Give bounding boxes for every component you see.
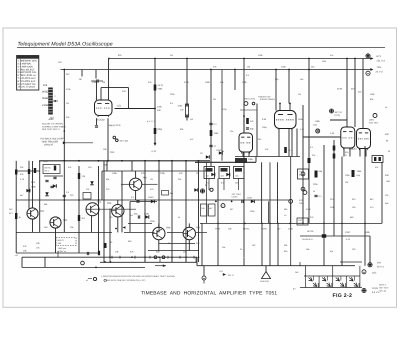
svg-text:(FRONT PANEL): (FRONT PANEL) <box>260 98 275 101</box>
svg-text:210Ω: 210Ω <box>42 104 48 107</box>
svg-text:SEE TEXT SEC 4: SEE TEXT SEC 4 <box>42 128 60 131</box>
svg-text:(15k): (15k) <box>157 128 162 131</box>
svg-text:STAB: STAB <box>261 228 267 231</box>
svg-text:CIRCUIT: CIRCUIT <box>44 144 54 147</box>
svg-text:SLOW: SLOW <box>307 230 314 233</box>
svg-text:CHASSIS: CHASSIS <box>260 280 269 283</box>
svg-text:211 V: 211 V <box>228 274 234 277</box>
svg-text:1M: 1M <box>196 172 199 175</box>
svg-text:(xV): (xV) <box>372 272 376 275</box>
svg-text:1 DENOTES WAFER POSITION VOLT: 1 DENOTES WAFER POSITION VOLTAGE ON FRON… <box>101 275 175 278</box>
svg-text:LEVEL: LEVEL <box>232 196 239 199</box>
svg-text:2M: 2M <box>213 98 216 101</box>
svg-text:+170: +170 <box>151 150 157 153</box>
svg-text:LINE xxx: LINE xxx <box>58 247 66 250</box>
svg-text:10M: 10M <box>322 60 326 63</box>
svg-text:FAST: FAST <box>345 231 351 234</box>
svg-text:1M: 1M <box>66 102 69 105</box>
svg-text:24 V d: 24 V d <box>376 70 384 73</box>
svg-text:MULTI: MULTI <box>58 239 65 242</box>
svg-text:TRIG LEVEL: TRIG LEVEL <box>244 98 256 101</box>
svg-text:10k: 10k <box>201 207 204 210</box>
svg-text:TR6: TR6 <box>166 227 171 230</box>
svg-text:PRE: PRE <box>110 151 115 154</box>
svg-text:16.7k: 16.7k <box>158 84 164 87</box>
svg-text:SET 10p: SET 10p <box>120 140 129 143</box>
svg-text:35 V d: 35 V d <box>377 266 384 269</box>
svg-text:2 AND WITH TIME DIV. SCREEN O: 2 AND WITH TIME DIV. SCREEN ON (+ PC) <box>105 279 146 282</box>
svg-text:10k: 10k <box>43 84 48 87</box>
svg-text:SET 10: SET 10 <box>335 111 343 114</box>
svg-text:TR1: TR1 <box>40 210 45 213</box>
svg-text:(TP2): (TP2) <box>335 114 341 117</box>
svg-text:10n: 10n <box>206 175 209 178</box>
svg-text:TRIG: TRIG <box>299 202 304 205</box>
svg-text:+12: +12 <box>15 254 18 257</box>
svg-text:1M: 1M <box>79 78 82 81</box>
svg-text:1W: 1W <box>190 118 193 121</box>
svg-text:2 X AMP BAL: 2 X AMP BAL <box>18 63 33 66</box>
svg-text:CORRECT SWP TIMES: CORRECT SWP TIMES <box>42 125 66 128</box>
svg-text:NOTE 2: NOTE 2 <box>379 284 387 287</box>
svg-text:TR2: TR2 <box>63 219 68 222</box>
svg-text:ADJUST TO OBTAIN: ADJUST TO OBTAIN <box>42 123 63 126</box>
svg-text:OA: OA <box>86 188 90 191</box>
svg-text:TIME TRIGGER: TIME TRIGGER <box>42 141 59 144</box>
svg-text:Telequipment Model D53A Oscill: Telequipment Model D53A Oscilloscope <box>18 41 113 47</box>
svg-text:12.6V: 12.6V <box>372 287 378 290</box>
svg-text:FIG 2-2: FIG 2-2 <box>333 293 353 299</box>
svg-text:SYNC xx: SYNC xx <box>58 250 66 253</box>
svg-text:OA91: OA91 <box>247 197 253 200</box>
svg-text:p.1, 2, 3: p.1, 2, 3 <box>147 120 156 123</box>
svg-text:HT1: HT1 <box>377 55 382 58</box>
svg-text:RC 1: RC 1 <box>45 170 51 173</box>
svg-text:5k6Ω: 5k6Ω <box>42 97 48 100</box>
svg-text:ECC82: ECC82 <box>97 119 105 122</box>
svg-text:400Ω: 400Ω <box>42 91 48 94</box>
svg-text:10Hz: 10Hz <box>369 119 374 122</box>
svg-text:EXT OUT: EXT OUT <box>369 122 379 125</box>
svg-text:1M: 1M <box>247 66 250 69</box>
svg-text:NETW: NETW <box>45 167 51 170</box>
svg-text:TR5: TR5 <box>107 202 112 205</box>
svg-text:LEVEL: LEVEL <box>243 228 251 231</box>
svg-text:10n: 10n <box>221 175 224 178</box>
svg-text:TRIG: TRIG <box>215 228 221 231</box>
svg-text:1M: 1M <box>150 178 153 181</box>
svg-text:(xx): (xx) <box>357 174 361 177</box>
svg-text:SEC 44: SEC 44 <box>379 290 387 293</box>
svg-text:3 Y AMP GAIN: 3 Y AMP GAIN <box>18 65 33 68</box>
svg-text:(adjust) PCB: (adjust) PCB <box>108 124 121 127</box>
svg-text:OA81: OA81 <box>144 213 150 216</box>
svg-text:1M: 1M <box>170 54 173 57</box>
svg-text:10n: 10n <box>235 175 238 178</box>
svg-text:(12): (12) <box>313 124 317 127</box>
svg-text:FLY-BACK HOLD-OFF: FLY-BACK HOLD-OFF <box>41 138 65 141</box>
svg-text:TIMEBASE AND HORIZONTAL AMPLIF: TIMEBASE AND HORIZONTAL AMPLIFIER TYPE T… <box>141 290 277 296</box>
svg-text:TR3: TR3 <box>97 201 102 204</box>
svg-text:1M: 1M <box>102 81 105 84</box>
svg-text:SLOW ACH: SLOW ACH <box>302 238 313 241</box>
svg-text:1M: 1M <box>298 93 301 96</box>
svg-text:40.5k: 40.5k <box>337 88 343 91</box>
svg-text:SET TRIG: SET TRIG <box>232 193 242 196</box>
svg-text:OA81: OA81 <box>148 196 154 199</box>
svg-text:24V: 24V <box>377 262 382 265</box>
svg-text:SEE TEXT: SEE TEXT <box>379 287 389 290</box>
svg-text:251 V d: 251 V d <box>377 60 386 63</box>
